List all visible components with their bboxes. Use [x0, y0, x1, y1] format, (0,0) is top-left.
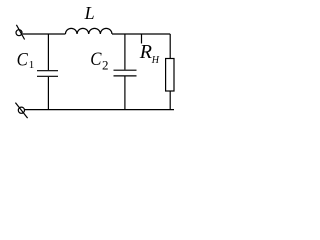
svg-text:1: 1 — [29, 59, 35, 71]
node stub — [141, 34, 143, 44]
svg-text:R: R — [139, 41, 152, 63]
wire bottom rail — [25, 109, 174, 111]
svg-text:Н: Н — [151, 55, 160, 66]
svg-text:C: C — [90, 50, 102, 70]
capacitor C2 — [114, 34, 137, 110]
svg-text:2: 2 — [102, 58, 109, 73]
wire top rail left — [23, 33, 66, 35]
inductor L — [65, 28, 112, 34]
terminal input bottom — [15, 103, 27, 119]
svg-text:L: L — [84, 3, 95, 23]
terminal input top — [16, 25, 25, 40]
capacitor C1 — [37, 34, 58, 110]
wire right drop — [169, 34, 171, 59]
resistor RH — [166, 59, 174, 92]
svg-text:C: C — [17, 50, 29, 70]
wire top rail right — [112, 33, 170, 35]
wire resistor bottom — [169, 91, 171, 110]
